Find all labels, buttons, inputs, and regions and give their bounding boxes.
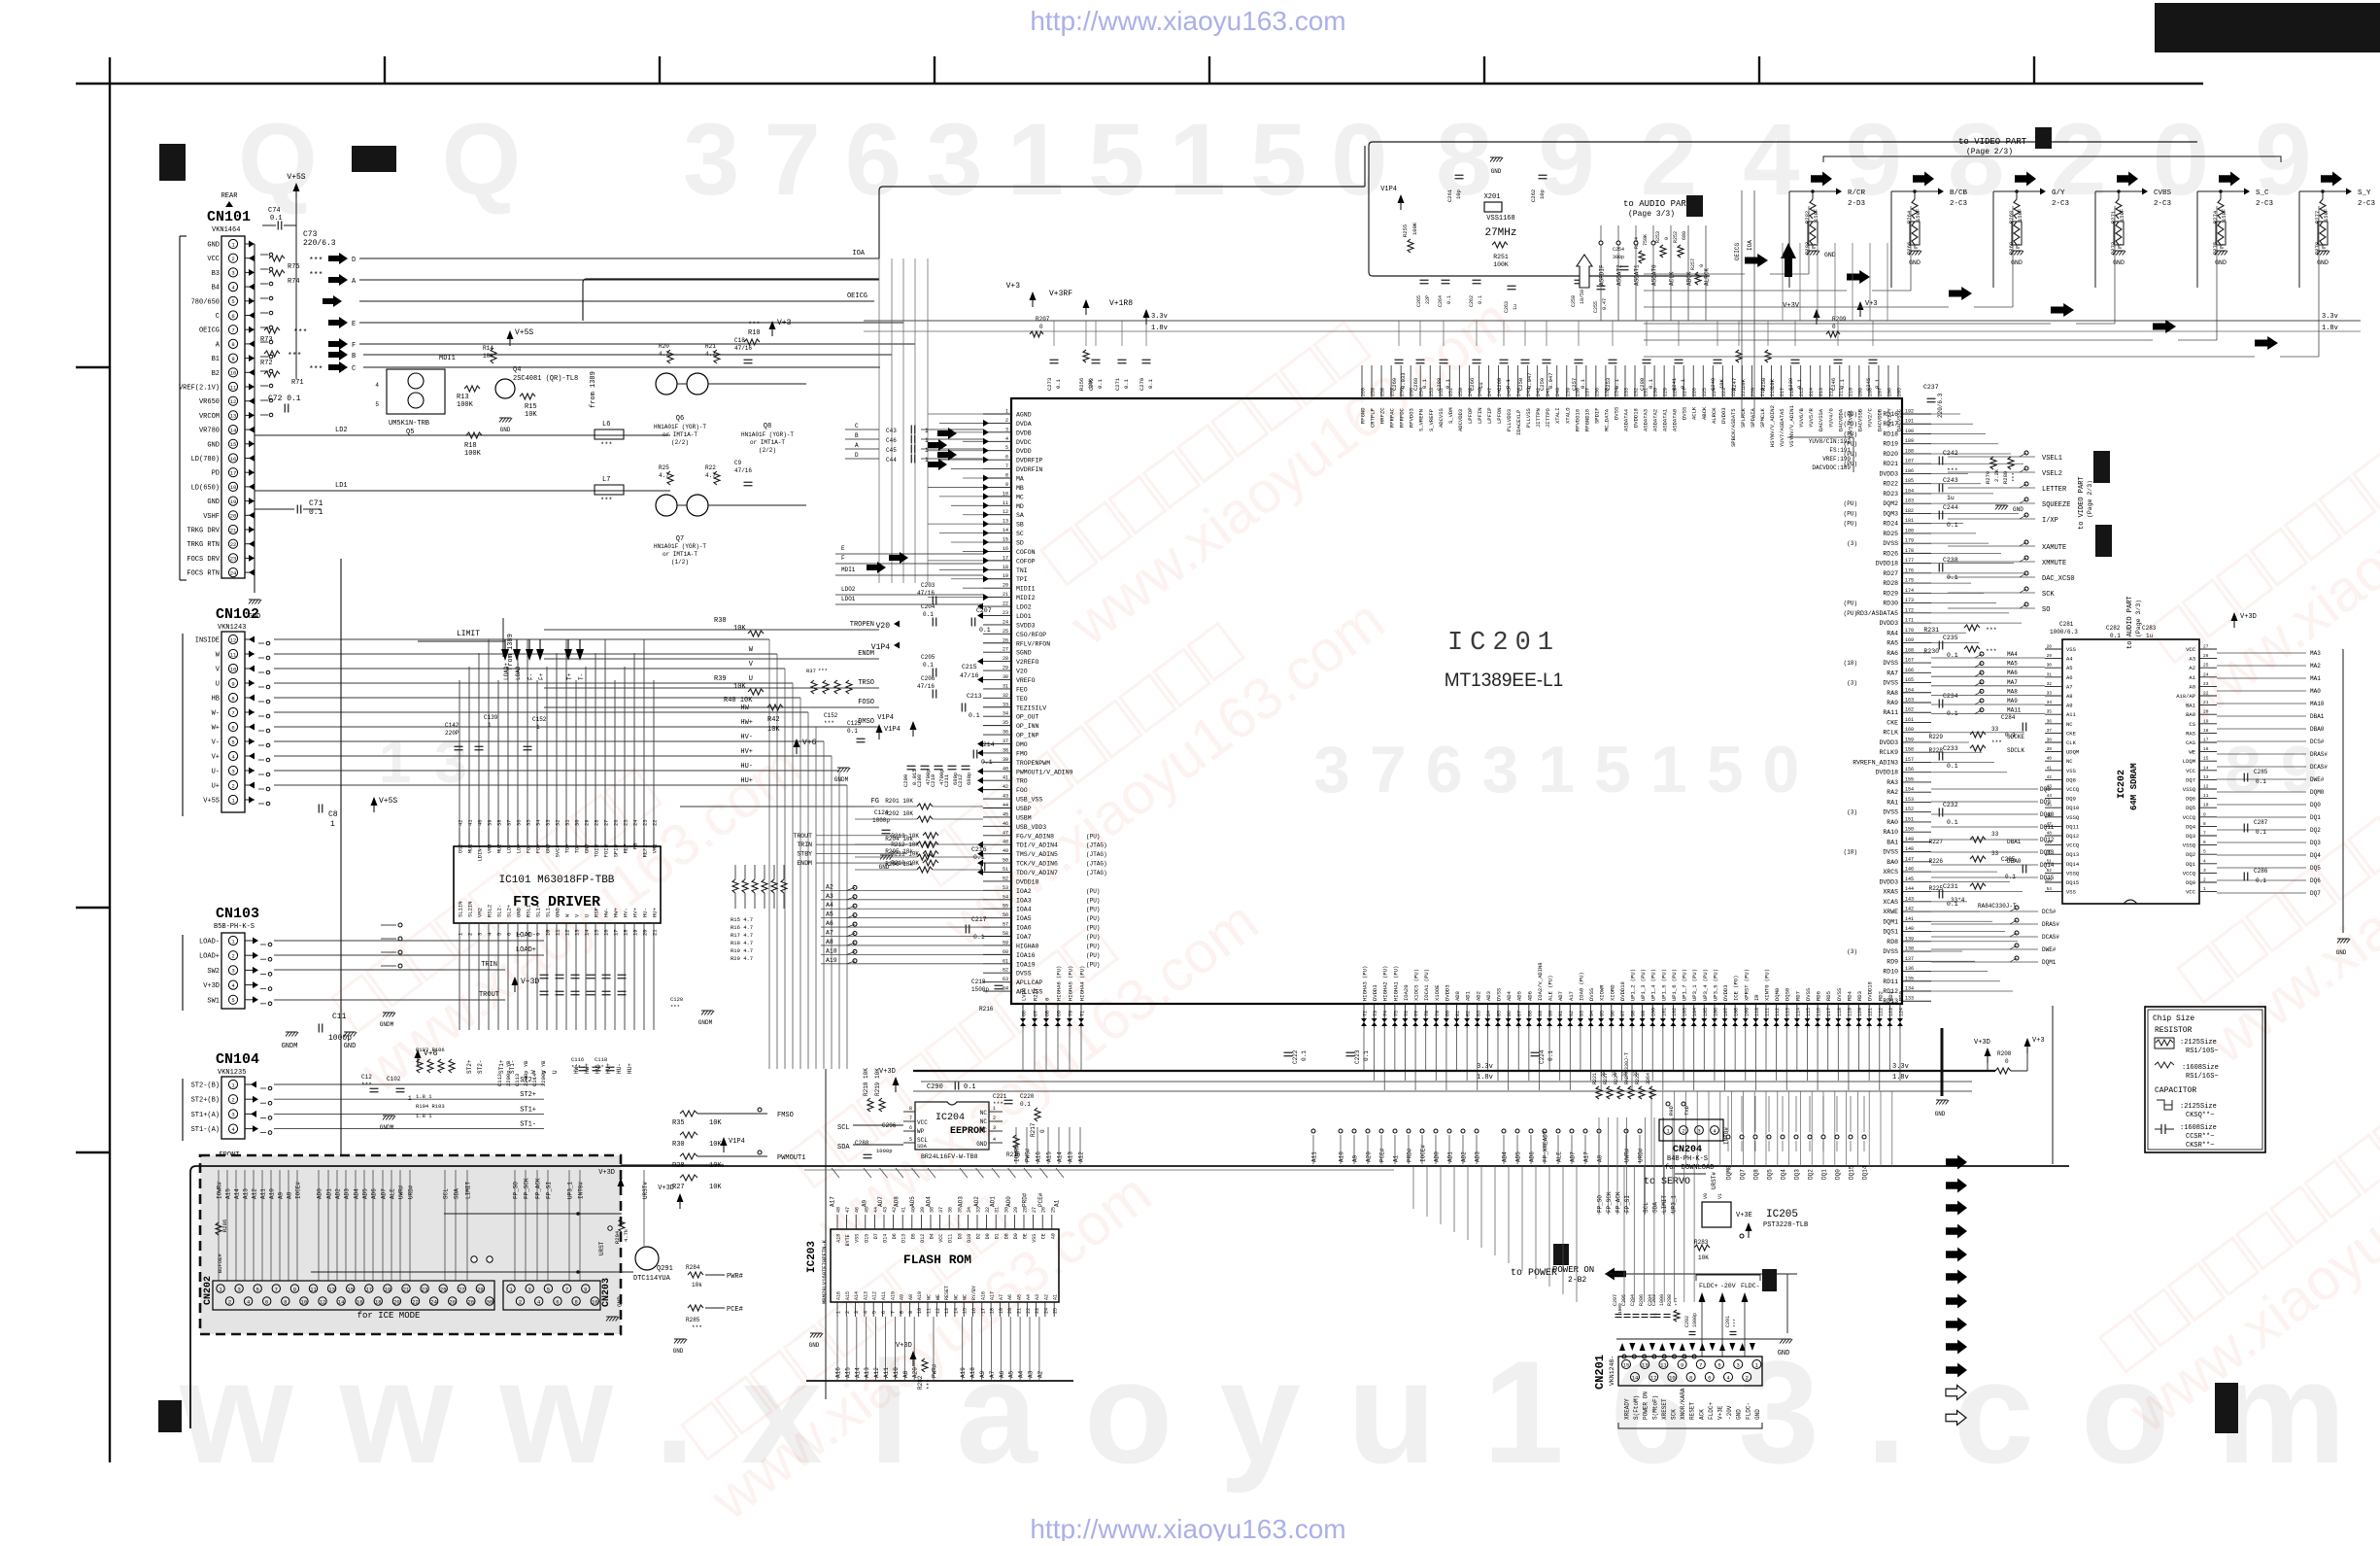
svg-text:26: 26 <box>2203 653 2209 659</box>
svg-text:5: 5 <box>496 933 503 936</box>
svg-text:C285: C285 <box>2254 769 2268 775</box>
wires IC201 bottom to bus <box>1023 1028 1900 1090</box>
svg-text:RD4: RD4 <box>1846 990 1853 1001</box>
svg-text:0.1: 0.1 <box>1947 522 1958 529</box>
dcs dras dcas dwe signals <box>0 0 1 1</box>
svg-text:HIGHA0: HIGHA0 <box>1016 943 1039 949</box>
svg-text:DBA0: DBA0 <box>2310 726 2325 733</box>
svg-text:192: 192 <box>1905 409 1914 415</box>
svg-text:HIGHA6 (PU): HIGHA6 (PU) <box>1056 966 1063 1001</box>
svg-text:2: 2 <box>2203 877 2206 883</box>
svg-text:45: 45 <box>1003 811 1008 817</box>
svg-text:HV-: HV- <box>740 734 753 741</box>
svg-text:C: C <box>352 365 356 373</box>
svg-text:0: 0 <box>1699 264 1705 267</box>
svg-text:E: E <box>841 545 845 552</box>
svg-text:RFGND: RFGND <box>1360 407 1367 424</box>
svg-text:47/16: 47/16 <box>734 467 752 474</box>
svg-text:0.1: 0.1 <box>2256 877 2266 884</box>
svg-text:DVSS: DVSS <box>1805 987 1812 1001</box>
svg-text:R18 4.7: R18 4.7 <box>731 940 753 946</box>
svg-text:35: 35 <box>1003 720 1008 726</box>
svg-text:5: 5 <box>231 997 234 1004</box>
svg-text:73: 73 <box>1373 1011 1378 1016</box>
svg-text:DVSS: DVSS <box>1883 660 1898 667</box>
svg-text:R15: R15 <box>525 403 537 411</box>
svg-text:FLDC+: FLDC+ <box>1708 1402 1715 1420</box>
svg-text:VSHF: VSHF <box>203 513 220 521</box>
svg-text:DQ11: DQ11 <box>2066 823 2080 830</box>
svg-text:DQ3: DQ3 <box>2310 840 2321 846</box>
svg-text:ADCVSS: ADCVSS <box>1438 407 1445 428</box>
svg-text:110: 110 <box>1754 1008 1760 1016</box>
svg-text:C223: C223 <box>1354 1049 1361 1064</box>
svg-text:IOA: IOA <box>852 250 865 258</box>
svg-text:253: 253 <box>1429 388 1435 396</box>
svg-text:to AUDIO PART: to AUDIO PART <box>2126 596 2134 649</box>
svg-text:C257: C257 <box>1571 378 1578 391</box>
registration mark top-left2 <box>352 146 396 172</box>
svg-text:0: 0 <box>1039 1129 1046 1133</box>
svg-text:HU+: HU+ <box>740 777 753 785</box>
svg-text:V+3D: V+3D <box>521 978 539 986</box>
svg-text:20: 20 <box>1007 1308 1013 1314</box>
svg-text:98: 98 <box>1631 1011 1637 1016</box>
svg-text:CN202: CN202 <box>203 1276 214 1305</box>
svg-text:25: 25 <box>623 819 629 826</box>
svg-text:4.7: 4.7 <box>659 472 669 479</box>
svg-text:8: 8 <box>1689 1374 1692 1381</box>
svg-text:AD3: AD3 <box>344 1188 351 1199</box>
svg-text:29: 29 <box>2047 653 2053 659</box>
svg-text:3.3v: 3.3v <box>1892 1063 1909 1071</box>
svg-text:C208: C208 <box>916 774 923 787</box>
resistors R75 R74 <box>269 256 285 261</box>
svg-text:0.1: 0.1 <box>1147 378 1154 389</box>
svg-text:R71: R71 <box>291 379 304 387</box>
wires IC101 bottom labels <box>466 1059 633 1074</box>
svg-text:167: 167 <box>1905 658 1914 664</box>
svg-text:RFRPDC: RFRPDC <box>1399 407 1406 428</box>
gnd SDRAM <box>2342 649 2344 933</box>
svg-text:144: 144 <box>1905 886 1914 892</box>
svg-text:GND: GND <box>207 441 220 449</box>
svg-text:PRD#: PRD# <box>1407 1148 1413 1162</box>
svg-text:15: 15 <box>1623 1361 1630 1368</box>
svg-text:X1OCS (PU): X1OCS (PU) <box>1413 969 1420 1001</box>
connector CN102 <box>183 606 270 816</box>
svg-text:18: 18 <box>1003 565 1008 570</box>
ic IC201 left pins <box>977 409 1073 996</box>
svg-text:87: 87 <box>1517 1011 1523 1016</box>
svg-text:AD2: AD2 <box>1475 991 1481 1001</box>
svg-text:***: *** <box>692 1324 702 1331</box>
svg-text:R286: R286 <box>221 1220 228 1232</box>
svg-text:27: 27 <box>1032 1207 1037 1213</box>
svg-text:2-C3: 2-C3 <box>2256 200 2274 208</box>
svg-text:R74: R74 <box>288 278 300 286</box>
svg-text:VSS: VSS <box>1032 1234 1037 1243</box>
svg-text:RFRPAC: RFRPAC <box>1389 407 1396 428</box>
svg-text:6: 6 <box>231 724 234 731</box>
svg-text:26: 26 <box>1003 637 1008 643</box>
svg-text:HU+: HU+ <box>652 908 659 917</box>
svg-text:B3: B3 <box>212 270 220 278</box>
svg-text:0.033: 0.033 <box>1400 372 1407 389</box>
svg-text:35: 35 <box>526 819 532 826</box>
svg-text:YUV6/B: YUV6/B <box>1798 407 1805 428</box>
svg-text:13: 13 <box>1003 519 1008 525</box>
svg-text:VCCQ: VCCQ <box>2183 814 2196 821</box>
svg-text:182: 182 <box>1905 508 1914 514</box>
svg-text:***: *** <box>1991 739 2002 746</box>
svg-text:250: 250 <box>1458 388 1464 396</box>
svg-text:11: 11 <box>555 929 561 936</box>
svg-text:IOCE#: IOCE# <box>295 1182 302 1199</box>
svg-text:0.1: 0.1 <box>1580 378 1586 389</box>
svg-text:LPFIN: LPFIN <box>1477 407 1483 424</box>
svg-text:190: 190 <box>1905 429 1914 434</box>
svg-text:92: 92 <box>1569 1011 1575 1016</box>
svg-text:37: 37 <box>506 819 513 826</box>
svg-text:39: 39 <box>2047 746 2053 752</box>
svg-text:220/6.3: 220/6.3 <box>1937 393 1944 418</box>
svg-text:HV+: HV+ <box>740 748 753 756</box>
svg-text:1: 1 <box>836 1311 842 1314</box>
svg-text:C9: C9 <box>734 460 742 466</box>
svg-text:86: 86 <box>1507 1011 1513 1016</box>
svg-text:GND: GND <box>516 907 523 917</box>
svg-text:1000: 1000 <box>1617 1303 1623 1314</box>
svg-text:11: 11 <box>2203 793 2209 799</box>
svg-text:HU+: HU+ <box>627 1063 633 1074</box>
svg-text:1u: 1u <box>1513 304 1518 310</box>
svg-text:155: 155 <box>1905 776 1914 782</box>
wire LD1 <box>255 490 622 492</box>
svg-text:220/6.3: 220/6.3 <box>303 239 336 248</box>
svg-text:V+3RF: V+3RF <box>1049 290 1072 298</box>
svg-text:DCAS#: DCAS# <box>2310 764 2328 771</box>
svg-text:114: 114 <box>1795 1008 1801 1016</box>
svg-text:C288: C288 <box>1436 378 1443 391</box>
svg-text:OP_INP: OP_INP <box>1016 733 1039 739</box>
svg-text:43: 43 <box>1003 794 1008 800</box>
svg-text:V+3V: V+3V <box>1783 302 1800 310</box>
power V+5S q4 <box>507 330 514 339</box>
svg-text:(JTAG): (JTAG) <box>1086 870 1107 876</box>
svg-text:R104 R103: R104 R103 <box>416 1103 445 1110</box>
svg-text:C259: C259 <box>1539 378 1546 391</box>
svg-text:A13: A13 <box>1068 1151 1074 1162</box>
svg-text:164: 164 <box>1905 687 1914 693</box>
svg-text:9: 9 <box>1681 1361 1683 1368</box>
svg-text:DQ4: DQ4 <box>2310 852 2321 859</box>
svg-text:28: 28 <box>594 819 600 826</box>
svg-text:AO8: AO8 <box>894 1196 901 1207</box>
svg-text:A13: A13 <box>864 1367 870 1378</box>
svg-text:RD3/ASDATA5: RD3/ASDATA5 <box>1856 610 1898 617</box>
svg-text:1: 1 <box>1005 409 1008 415</box>
svg-text:41: 41 <box>467 819 474 826</box>
svg-text:RY/BY: RY/BY <box>971 1286 977 1300</box>
svg-text:10K: 10K <box>733 683 746 691</box>
ic IC203 top pins <box>836 1207 1057 1246</box>
svg-text:8: 8 <box>526 933 532 936</box>
svg-text:376315150: 376315150 <box>683 103 1412 217</box>
svg-text:DVDD3: DVDD3 <box>1879 620 1898 627</box>
svg-text:YUV5/R: YUV5/R <box>1808 407 1815 428</box>
svg-text:DVSS: DVSS <box>1682 406 1688 420</box>
svg-text:R212 10K: R212 10K <box>891 842 919 848</box>
ic IC101 bottom pins <box>458 901 659 1030</box>
svg-text:C206: C206 <box>921 675 935 682</box>
svg-text:16: 16 <box>971 1308 977 1314</box>
svg-text:0.1: 0.1 <box>2256 778 2266 785</box>
svg-text:IC204: IC204 <box>935 1113 965 1123</box>
svg-text:TCK/V_ADIN6: TCK/V_ADIN6 <box>1016 861 1058 868</box>
svg-text:A17: A17 <box>830 1196 836 1207</box>
svg-text:C8: C8 <box>328 810 338 819</box>
svg-text:V1P4: V1P4 <box>729 1138 745 1146</box>
svg-text:NC: NC <box>980 1118 988 1125</box>
svg-text:HN1A01F (YGR)-T: HN1A01F (YGR)-T <box>654 543 706 550</box>
registration mark top-right <box>2155 3 2380 52</box>
svg-text:IOA20: IOA20 <box>1403 984 1410 1001</box>
svg-text:90: 90 <box>1548 1011 1554 1016</box>
svg-text:DVDD3: DVDD3 <box>1444 984 1450 1001</box>
svg-text:A8: A8 <box>287 1191 293 1199</box>
svg-text:(JTAG): (JTAG) <box>1086 842 1107 849</box>
svg-text:32: 32 <box>2047 681 2053 687</box>
svg-text:ENDM: ENDM <box>797 860 812 867</box>
svg-text:(2/2): (2/2) <box>671 439 689 446</box>
svg-text:A0: A0 <box>2189 683 2195 690</box>
svg-text:0.1: 0.1 <box>1301 1050 1308 1061</box>
svg-text:DQM2: DQM2 <box>1883 500 1898 507</box>
svg-text:DRAS#: DRAS# <box>2310 751 2328 758</box>
svg-text:31: 31 <box>995 1207 1001 1213</box>
svg-text:A8: A8 <box>902 1370 909 1378</box>
svg-text:178: 178 <box>1905 548 1914 554</box>
svg-text:V+3: V+3 <box>1006 282 1021 291</box>
svg-text:R230: R230 <box>1923 648 1939 655</box>
svg-text:185: 185 <box>1905 478 1914 484</box>
connector CN101 <box>179 192 255 580</box>
svg-text:A2: A2 <box>826 883 833 890</box>
svg-text:F: F <box>841 555 845 562</box>
svg-text:DQ4: DQ4 <box>1781 1169 1787 1180</box>
svg-text:47/16: 47/16 <box>917 590 935 597</box>
svg-text:C231: C231 <box>1943 883 1958 890</box>
svg-text:33: 33 <box>976 1207 982 1213</box>
svg-text:DVDRFIN: DVDRFIN <box>1016 466 1042 473</box>
svg-text:TROUT: TROUT <box>793 833 812 840</box>
svg-text:0.1: 0.1 <box>969 712 980 719</box>
svg-text:C262: C262 <box>1530 189 1537 202</box>
svg-text:GND: GND <box>809 1342 820 1349</box>
svg-text:0.1: 0.1 <box>973 854 985 861</box>
svg-text:C212: C212 <box>957 774 964 787</box>
resistor R18 <box>466 432 482 438</box>
svg-text:NC: NC <box>963 1294 969 1300</box>
svg-text:236: 236 <box>1594 388 1600 396</box>
svg-text:DVDD3: DVDD3 <box>1879 470 1898 477</box>
svg-text:68: 68 <box>1045 1011 1051 1016</box>
svg-text:C203: C203 <box>921 582 935 589</box>
svg-text:138: 138 <box>1905 946 1914 952</box>
svg-text:A19: A19 <box>960 1367 967 1378</box>
svg-text:MA11: MA11 <box>2007 707 2022 714</box>
svg-text:33: 33 <box>1622 1071 1628 1077</box>
svg-text:C269: C269 <box>1391 378 1398 391</box>
svg-text:17: 17 <box>980 1308 986 1314</box>
svg-text:34: 34 <box>967 1207 972 1213</box>
svg-text:680: 680 <box>1682 231 1687 240</box>
svg-text:TMS/V_ADIN5: TMS/V_ADIN5 <box>1016 851 1058 858</box>
svg-text:from 1389: from 1389 <box>590 371 597 408</box>
svg-text:GND: GND <box>1491 168 1502 175</box>
svg-text:INSIDE: INSIDE <box>195 637 220 645</box>
svg-text:162: 162 <box>1905 707 1914 713</box>
power V+3 left <box>769 321 776 329</box>
resistor bank left of CN204 <box>1592 1052 1655 1099</box>
svg-text:ST1-: ST1- <box>520 1121 536 1129</box>
svg-text:V0: V0 <box>1703 1193 1709 1199</box>
svg-text:D14: D14 <box>883 1234 889 1243</box>
svg-text:118: 118 <box>1837 1008 1843 1016</box>
svg-text:(3): (3) <box>1847 680 1857 687</box>
svg-text:LDIN+: LDIN+ <box>477 845 484 862</box>
dq8-dq15 labels <box>1931 786 2055 881</box>
svg-text:A2: A2 <box>1043 1294 1049 1300</box>
svg-text:LDO1: LDO1 <box>841 596 856 602</box>
svg-text:133: 133 <box>1905 996 1914 1002</box>
svg-text:3.3v: 3.3v <box>2322 313 2338 321</box>
svg-text:HIGHA2 (PU): HIGHA2 (PU) <box>1382 966 1389 1001</box>
svg-text:28: 28 <box>2047 644 2053 650</box>
capacitor cluster above CN201 <box>1613 1294 1657 1318</box>
svg-text:DQ14: DQ14 <box>2066 861 2080 868</box>
wire q-cluster links <box>622 434 670 436</box>
svg-text:DVDD3: DVDD3 <box>1879 739 1898 746</box>
svg-text:25: 25 <box>1053 1308 1059 1314</box>
svg-text:L7: L7 <box>602 476 610 484</box>
svg-text:33: 33 <box>1991 850 1999 857</box>
svg-text:CKSQ**~: CKSQ**~ <box>2186 1112 2214 1119</box>
svg-text:21: 21 <box>2203 700 2209 705</box>
svg-text:USBP: USBP <box>1016 806 1032 812</box>
svg-text:PCE#: PCE# <box>1379 1148 1386 1162</box>
resistor network R225 RA84C330J-T <box>1970 883 1986 889</box>
svg-text:LD(780): LD(780) <box>191 456 220 464</box>
svg-text:ALE (PU): ALE (PU) <box>1547 976 1554 1001</box>
svg-text:XRCS: XRCS <box>1883 869 1898 876</box>
svg-text:X1OOE: X1OOE <box>1434 984 1441 1001</box>
wire CN101 gnd bus <box>254 244 255 593</box>
svg-text:HIGHA4 (PU): HIGHA4 (PU) <box>1079 966 1086 1001</box>
resistor R14 <box>491 348 496 363</box>
svg-text:A18: A18 <box>826 947 837 954</box>
svg-text:159: 159 <box>1905 737 1914 742</box>
svg-text:SW1: SW1 <box>207 997 220 1005</box>
svg-text:14: 14 <box>1003 528 1008 533</box>
svg-text:ASDATA3: ASDATA3 <box>1643 409 1649 431</box>
svg-text:C290: C290 <box>927 1083 943 1091</box>
svg-text:64M SDRAM: 64M SDRAM <box>2129 763 2139 810</box>
svg-text:B5B-PH-K-S: B5B-PH-K-S <box>214 923 255 931</box>
svg-text:35: 35 <box>2047 709 2053 715</box>
svg-text:DQS0: DQS0 <box>1785 988 1791 1001</box>
svg-text:RD1: RD1 <box>1887 990 1894 1001</box>
svg-text:U-: U- <box>212 769 220 776</box>
svg-text:38: 38 <box>2047 738 2053 743</box>
svg-text:33: 33 <box>1601 1071 1607 1077</box>
svg-text:2-C3: 2-C3 <box>2052 200 2070 208</box>
svg-text:A14: A14 <box>854 1291 860 1300</box>
svg-text:108: 108 <box>1734 1008 1740 1016</box>
svg-text:C18: C18 <box>734 337 745 344</box>
svg-text:R213 10K: R213 10K <box>891 833 919 840</box>
svg-text:DTC114YUA: DTC114YUA <box>633 1275 671 1283</box>
svg-text:0.1: 0.1 <box>1839 378 1846 389</box>
svg-text:24: 24 <box>1043 1308 1049 1314</box>
svg-text:R9D: R9D <box>1668 1105 1675 1116</box>
svg-text:U: U <box>584 914 591 917</box>
svg-text:DQ8: DQ8 <box>2066 776 2076 783</box>
svg-text:MU2: MU2 <box>496 843 503 853</box>
svg-text:A1: A1 <box>1054 1199 1061 1207</box>
svg-text:IC201: IC201 <box>1447 629 1560 658</box>
svg-text:***: *** <box>600 498 613 505</box>
svg-text:FG/V_ADIN8: FG/V_ADIN8 <box>1016 833 1054 840</box>
svg-text:AO4: AO4 <box>926 1196 933 1207</box>
svg-text:R/CR: R/CR <box>1848 189 1866 197</box>
svg-text:R210 10K: R210 10K <box>891 860 919 867</box>
svg-text:ABCK: ABCK <box>1701 406 1708 420</box>
svg-text:0.1: 0.1 <box>1505 378 1512 389</box>
svg-text:LO-: LO- <box>506 843 513 853</box>
svg-text:8: 8 <box>574 1298 577 1305</box>
svg-text:LOAD-: LOAD- <box>199 939 220 946</box>
bus lines under IC201 <box>913 1070 1995 1072</box>
svg-text:DQ12: DQ12 <box>2066 833 2079 840</box>
svg-text:MA3: MA3 <box>2310 650 2321 657</box>
svg-text:SCK: SCK <box>2042 591 2055 599</box>
svg-text:89: 89 <box>1538 1011 1544 1016</box>
svg-text:IC203: IC203 <box>806 1241 818 1273</box>
svg-text:A20: A20 <box>1366 1151 1373 1162</box>
svg-text:F+: F+ <box>538 672 545 680</box>
svg-text:PRD#: PRD# <box>1022 1192 1029 1207</box>
svg-text:RA11: RA11 <box>1883 709 1898 716</box>
svg-text:HB: HB <box>212 696 220 704</box>
svg-text:10K: 10K <box>733 625 746 633</box>
svg-text:40: 40 <box>1003 766 1008 772</box>
svg-text:C282: C282 <box>2106 625 2121 632</box>
svg-text:SL1+: SL1+ <box>535 905 542 917</box>
svg-text:36: 36 <box>516 819 523 826</box>
svg-text:CVBS: CVBS <box>2154 189 2172 197</box>
svg-text:25: 25 <box>1050 1207 1056 1213</box>
svg-text:IOA4: IOA4 <box>1016 907 1032 913</box>
svg-text:DVSS: DVSS <box>1883 849 1898 856</box>
svg-text:XIOWR: XIOWR <box>1599 984 1606 1001</box>
svg-text:VCC: VCC <box>207 256 220 263</box>
svg-text:C207: C207 <box>976 607 992 614</box>
svg-text:A9: A9 <box>2066 703 2073 709</box>
svg-text:A1: A1 <box>1053 1294 1059 1300</box>
svg-text:C120: C120 <box>670 996 683 1003</box>
